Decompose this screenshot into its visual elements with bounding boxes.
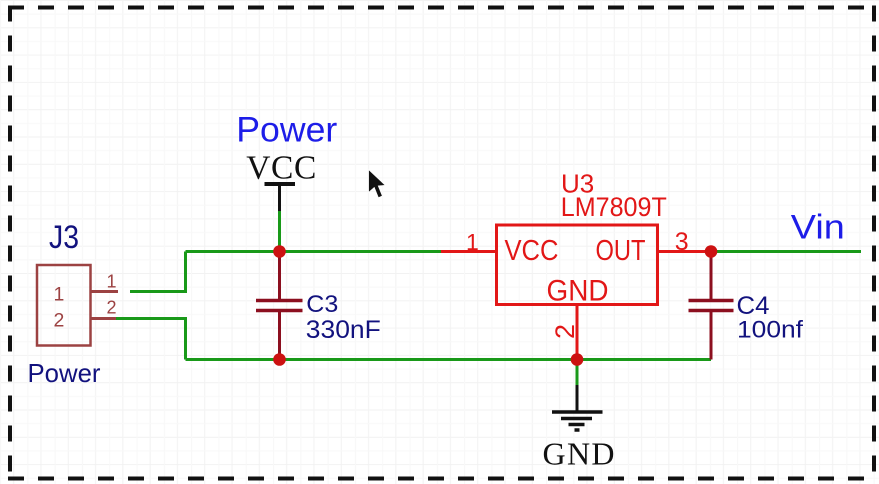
- U3 pin 3 wire: [658, 250, 712, 253]
- svg-text:Power: Power: [28, 358, 101, 388]
- ground stem: [576, 385, 579, 411]
- svg-text:OUT: OUT: [596, 235, 646, 267]
- wire: top rail VCC net: [186, 250, 442, 253]
- capacitor C4: [689, 252, 734, 360]
- C4 bottom lead: [710, 312, 713, 360]
- svg-text:LM7809T: LM7809T: [561, 192, 667, 222]
- wire: J3 pin1 to top rail: [130, 252, 186, 292]
- junction node: C3 bottom: [273, 353, 286, 366]
- svg-text:VCC: VCC: [505, 235, 559, 267]
- wire: J3 pin2 to bottom rail: [116, 319, 186, 360]
- J3 pin 1 stub: [91, 290, 119, 293]
- VCC power symbol: [246, 150, 316, 212]
- sheet border (dashed frame): [8, 6, 874, 10]
- svg-text:1: 1: [466, 229, 479, 255]
- connector J3: [37, 265, 118, 346]
- C3 plates: [256, 299, 303, 303]
- ground bars: [552, 410, 603, 414]
- wire: bottom rail GND net: [186, 358, 712, 361]
- wire: VCC symbol drop (green part): [278, 210, 281, 252]
- C4 plates: [689, 299, 734, 303]
- regulator U3: [497, 225, 658, 308]
- C3 top lead: [278, 252, 281, 300]
- J3 pin 2 stub: [91, 317, 117, 320]
- VCC symbol bar: [265, 182, 296, 186]
- svg-text:3: 3: [675, 228, 689, 256]
- junction node: VCC / C3 top: [273, 245, 286, 258]
- svg-text:VCC: VCC: [246, 150, 316, 187]
- svg-text:1: 1: [54, 284, 65, 306]
- svg-text:1: 1: [107, 272, 117, 292]
- wire: output rail to Vin: [711, 250, 861, 253]
- svg-text:330nF: 330nF: [306, 316, 381, 344]
- C4 top lead: [710, 252, 713, 300]
- C3 bottom lead: [278, 312, 281, 360]
- U3 pin 2 wire: [576, 305, 579, 360]
- svg-text:Power: Power: [236, 111, 337, 150]
- svg-text:100nf: 100nf: [737, 317, 803, 344]
- junction node: GND / U3 pin2: [571, 353, 584, 366]
- svg-text:2: 2: [107, 298, 117, 318]
- junction node: OUT / C4 top: [705, 245, 718, 258]
- capacitor C3: [256, 252, 303, 360]
- wire: GND symbol drop (green part): [576, 360, 579, 387]
- mouse cursor: [369, 170, 386, 198]
- svg-text:C3: C3: [306, 291, 338, 318]
- svg-text:Vin: Vin: [791, 209, 845, 247]
- svg-text:2: 2: [54, 310, 65, 332]
- svg-text:J3: J3: [49, 219, 79, 255]
- U3 pin 1 wire: [441, 250, 497, 253]
- svg-text:2: 2: [550, 324, 580, 339]
- ground symbol: [543, 385, 615, 472]
- VCC symbol stem: [278, 184, 281, 211]
- svg-text:GND: GND: [543, 436, 615, 472]
- svg-text:GND: GND: [547, 275, 609, 308]
